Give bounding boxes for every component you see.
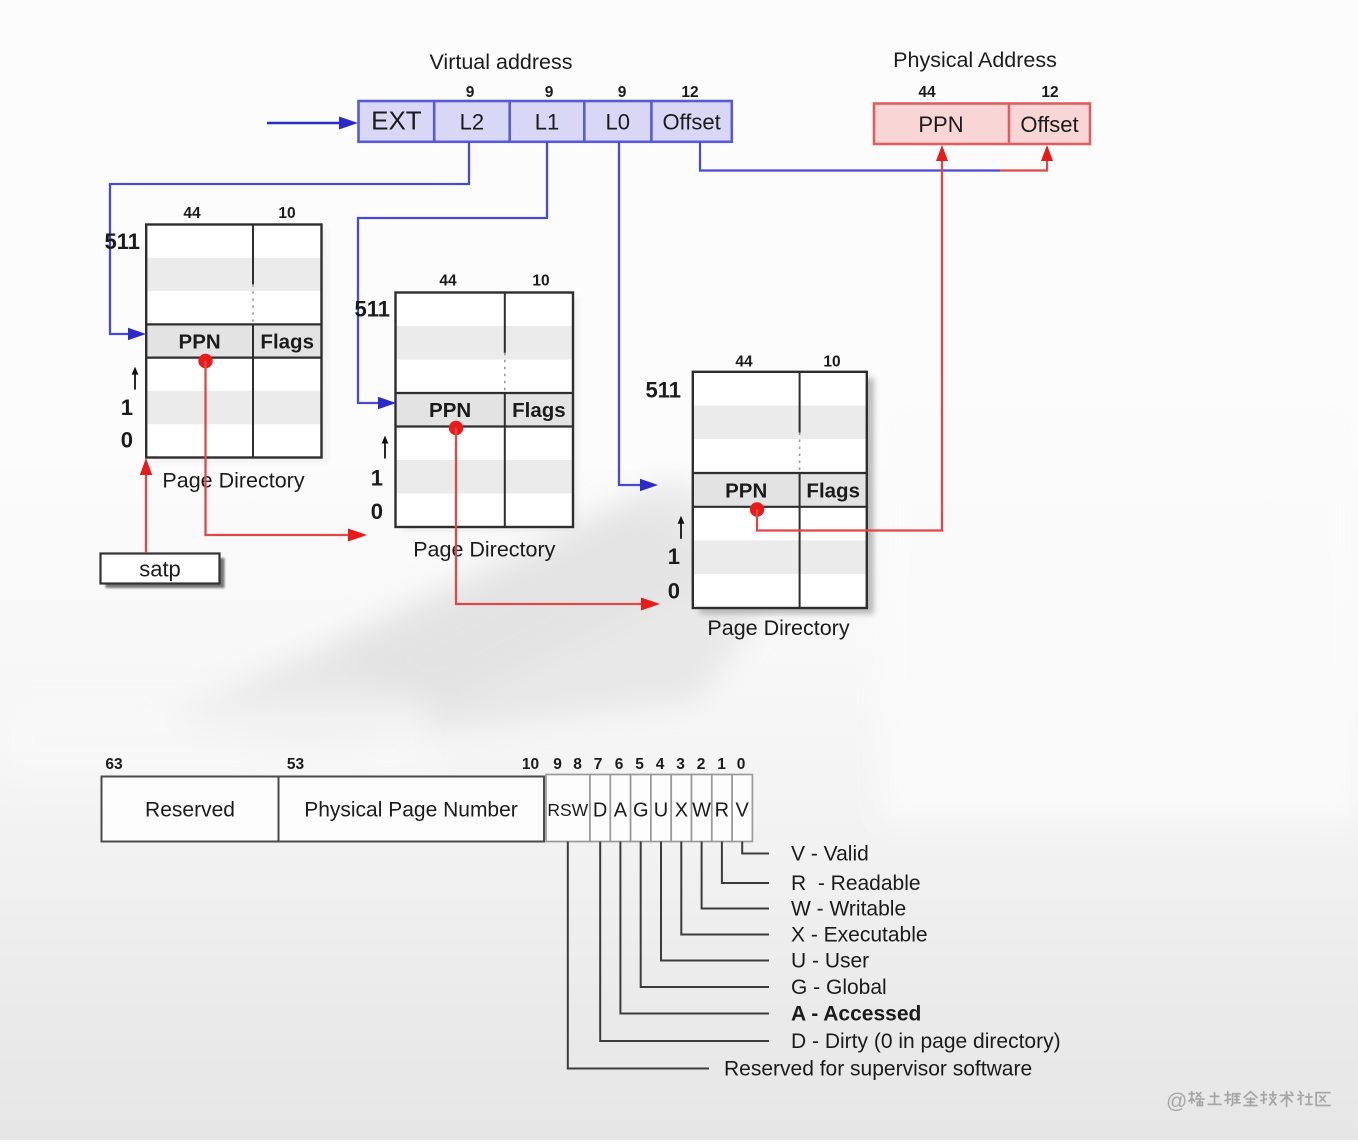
PTE field: bit D box xyxy=(590,775,610,842)
svg-text:X - Executable: X - Executable xyxy=(791,924,928,947)
legend line: U - User xyxy=(661,842,869,973)
PTE field: RSW box xyxy=(546,775,590,842)
svg-text:satp: satp xyxy=(139,557,181,582)
svg-text:6: 6 xyxy=(615,756,624,773)
PTE field: bit G box xyxy=(631,775,651,842)
page directory 3 (L0 level) xyxy=(646,354,874,641)
svg-text:X: X xyxy=(675,800,688,822)
svg-text:53: 53 xyxy=(287,756,305,773)
PTE field: bit U box xyxy=(651,775,671,842)
wire L0 field -> page directory 3 xyxy=(619,142,658,492)
PTE field: Physical Page Number box xyxy=(279,777,545,842)
svg-text:0: 0 xyxy=(737,756,746,773)
svg-text:4: 4 xyxy=(656,756,665,773)
svg-text:U - User: U - User xyxy=(791,950,869,973)
virtual address box (EXT | L2 | L1 | L0 | Offset) xyxy=(359,101,732,142)
virtual address bit-width labels 9 9 9 12 xyxy=(466,84,699,101)
legend line: W - Writable xyxy=(702,842,907,921)
svg-text:G: G xyxy=(633,800,649,822)
physical address box (PPN | Offset) xyxy=(874,104,1090,145)
svg-text:Flags: Flags xyxy=(806,479,860,502)
svg-text:U: U xyxy=(654,800,668,822)
shadow wedge xyxy=(160,478,810,748)
svg-text:Page Directory: Page Directory xyxy=(413,538,555,562)
background white upper zone xyxy=(0,0,1358,470)
svg-text:A: A xyxy=(614,800,628,822)
legend line: D - Dirty (0 in page directory) xyxy=(600,842,1060,1054)
svg-text:10: 10 xyxy=(522,756,539,773)
legend line: Reserved for supervisor software xyxy=(568,842,1032,1081)
svg-text:D: D xyxy=(593,800,607,822)
red dot + wire: PPN of page directory 1 -> page directory 2 xyxy=(198,354,367,542)
PTE field: bit A box xyxy=(610,775,630,842)
svg-text:@: @ xyxy=(1166,1090,1187,1113)
svg-text:PPN: PPN xyxy=(918,112,963,137)
svg-text:44: 44 xyxy=(183,205,201,222)
svg-text:R - Readable: R - Readable xyxy=(791,872,921,895)
wire L2 field -> page directory 1 xyxy=(110,142,469,340)
legend line: X - Executable xyxy=(681,842,927,947)
svg-text:Flags: Flags xyxy=(260,331,314,354)
wire L1 field -> page directory 2 xyxy=(358,142,547,410)
red dot + wire: PPN of page directory 3 -> physical address PPN xyxy=(750,145,948,531)
svg-text:8: 8 xyxy=(573,756,582,773)
svg-text:V: V xyxy=(736,800,750,822)
svg-text:511: 511 xyxy=(646,378,682,403)
svg-text:0: 0 xyxy=(668,579,680,604)
svg-text:10: 10 xyxy=(278,205,295,222)
svg-text:12: 12 xyxy=(1041,84,1058,101)
legend line: G - Global xyxy=(641,842,887,1000)
wire Offset field -> physical address Offset xyxy=(700,142,1053,171)
svg-text:Offset: Offset xyxy=(1020,112,1078,137)
PTE field: Reserved box xyxy=(102,777,279,842)
svg-text:A - Accessed: A - Accessed xyxy=(791,1003,921,1026)
svg-text:Physical Page Number: Physical Page Number xyxy=(304,799,518,822)
legend line: A - Accessed xyxy=(620,842,921,1026)
svg-text:D - Dirty (0 in page directory: D - Dirty (0 in page directory) xyxy=(791,1030,1061,1053)
svg-text:Virtual address: Virtual address xyxy=(429,50,572,74)
satp arrow -> page directory 1 xyxy=(140,458,152,553)
svg-text:RSW: RSW xyxy=(547,800,588,820)
PTE field: bit W box xyxy=(692,775,712,842)
svg-text:G - Global: G - Global xyxy=(791,976,887,999)
svg-text:9: 9 xyxy=(466,84,475,101)
svg-text:R: R xyxy=(715,800,729,822)
PTE field: bit V box xyxy=(732,775,752,842)
satp box xyxy=(101,554,225,589)
svg-text:9: 9 xyxy=(553,756,562,773)
svg-text:PPN: PPN xyxy=(179,331,221,354)
PTE field: bit R box xyxy=(712,775,732,842)
svg-text:Physical Address: Physical Address xyxy=(893,48,1057,72)
watermark xyxy=(1166,1090,1330,1113)
svg-text:511: 511 xyxy=(355,297,391,322)
svg-text:1: 1 xyxy=(717,756,726,773)
svg-text:1: 1 xyxy=(121,395,133,420)
svg-text:Reserved for supervisor softwa: Reserved for supervisor software xyxy=(724,1058,1032,1081)
svg-text:10: 10 xyxy=(823,354,840,371)
svg-text:511: 511 xyxy=(105,229,141,254)
svg-text:9: 9 xyxy=(545,84,554,101)
PTE bit number labels xyxy=(105,756,745,773)
svg-text:12: 12 xyxy=(681,84,698,101)
svg-text:7: 7 xyxy=(594,756,603,773)
svg-text:63: 63 xyxy=(105,756,123,773)
svg-text:L0: L0 xyxy=(606,110,630,135)
svg-text:EXT: EXT xyxy=(371,106,422,136)
PTE field: bit X box xyxy=(671,775,691,842)
svg-text:L1: L1 xyxy=(535,110,559,135)
svg-text:9: 9 xyxy=(618,84,627,101)
svg-text:1: 1 xyxy=(371,466,383,491)
page directory 1 (L2 level) xyxy=(105,205,328,493)
svg-text:44: 44 xyxy=(439,273,457,290)
svg-text:10: 10 xyxy=(532,273,549,290)
svg-text:L2: L2 xyxy=(460,110,484,135)
svg-text:Offset: Offset xyxy=(662,110,720,135)
physical address bit-width labels 44 12 xyxy=(918,84,1058,101)
legend line: R - Readable xyxy=(722,842,921,896)
svg-text:Flags: Flags xyxy=(512,399,566,422)
svg-text:2: 2 xyxy=(697,756,706,773)
legend line: V - Valid xyxy=(742,842,869,866)
svg-text:Page Directory: Page Directory xyxy=(162,469,304,493)
svg-text:W - Writable: W - Writable xyxy=(791,898,906,921)
svg-text:W: W xyxy=(692,800,711,822)
red dot + wire: PPN of page directory 2 -> page directory 3 xyxy=(449,421,660,611)
svg-text:PPN: PPN xyxy=(429,399,471,422)
svg-text:0: 0 xyxy=(121,428,133,453)
svg-text:5: 5 xyxy=(635,756,644,773)
svg-text:44: 44 xyxy=(918,84,936,101)
svg-text:1: 1 xyxy=(668,544,680,569)
page directory 2 (L1 level) xyxy=(355,273,580,562)
svg-text:3: 3 xyxy=(676,756,685,773)
svg-text:PPN: PPN xyxy=(725,479,767,502)
svg-text:0: 0 xyxy=(371,499,383,524)
svg-text:Page Directory: Page Directory xyxy=(707,616,849,640)
svg-text:V - Valid: V - Valid xyxy=(791,843,869,866)
arrow into virtual address box xyxy=(267,117,358,130)
svg-text:Reserved: Reserved xyxy=(145,799,235,822)
svg-text:44: 44 xyxy=(735,354,753,371)
